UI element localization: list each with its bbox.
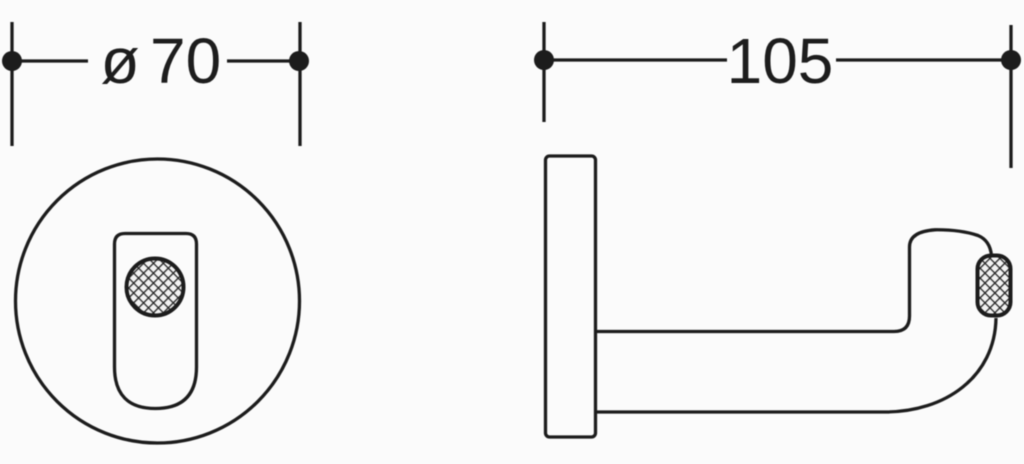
dimension line 105 right segment — [836, 58, 1011, 61]
side view hatched knob tip — [978, 256, 1011, 316]
svg-text:105: 105 — [727, 25, 834, 97]
dimension dot ø70 left — [2, 51, 22, 71]
extension line right of 105 — [1009, 25, 1012, 168]
extension line right of ø70 — [298, 22, 301, 146]
dimension line ø70 left segment — [11, 59, 88, 62]
svg-text:70: 70 — [150, 25, 221, 97]
dimension dot ø70 right — [289, 51, 309, 71]
svg-text:ø: ø — [100, 25, 139, 97]
dimension line 105 left segment — [544, 58, 727, 61]
front view faceplate circle — [16, 159, 300, 443]
side view wall plate — [546, 156, 596, 437]
extension line left of 105 — [542, 22, 545, 122]
side view hook outer sweep — [597, 318, 996, 412]
dimension dot 105 right — [1001, 50, 1021, 70]
dimension line ø70 right segment — [227, 59, 299, 62]
side view hook arm and upright outline — [597, 230, 992, 332]
front view hook body pill — [115, 234, 197, 409]
dimension dot 105 left — [534, 50, 554, 70]
front view hatched screw circle — [127, 259, 184, 316]
extension line left of ø70 — [10, 22, 13, 146]
